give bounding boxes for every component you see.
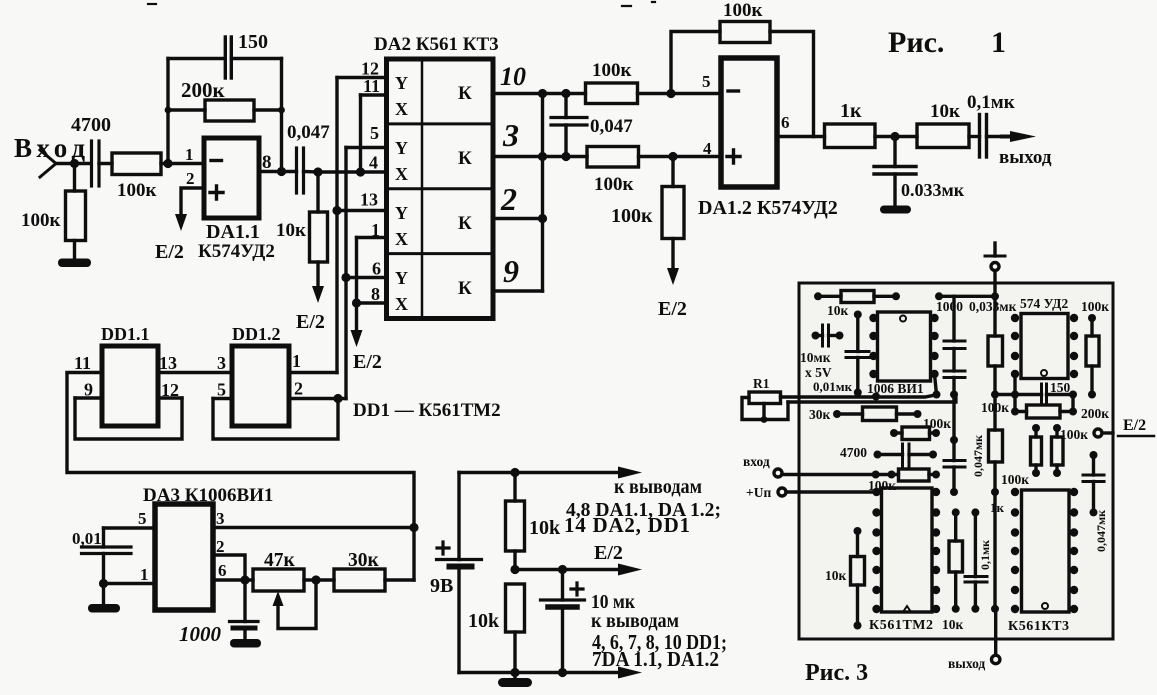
node feedback at pin5 <box>666 89 675 98</box>
PCB label К561ТМ2 <box>869 618 933 633</box>
PCB 1006 ВИ1 pins <box>869 314 938 378</box>
label 10k lower <box>468 610 500 632</box>
svg-text:X: X <box>395 164 408 184</box>
svg-text:R1: R1 <box>753 376 770 391</box>
pin 1 wire DD1.2 to bus A <box>289 371 337 374</box>
capacitor 10мк <box>541 570 585 673</box>
svg-text:Е/2: Е/2 <box>353 351 382 373</box>
svg-text:0,1мк: 0,1мк <box>978 540 992 570</box>
svg-text:8: 8 <box>371 284 380 304</box>
pin 5 wire <box>346 146 387 149</box>
minus sign DA1.2 <box>728 89 739 92</box>
svg-text:2: 2 <box>294 379 303 399</box>
label DA1.1 <box>206 221 260 243</box>
capacitor 1000 <box>230 580 259 640</box>
svg-text:10к: 10к <box>930 101 960 122</box>
pin 5 label DA1.2 <box>702 72 711 91</box>
pin 6 label DA1.2 <box>781 113 790 132</box>
resistor 100к (series input) <box>112 153 204 175</box>
pin 10 output wire <box>493 92 586 95</box>
label E/2 PCB <box>1123 417 1146 434</box>
node feedback tap <box>163 107 172 168</box>
resistor 10к to E/2 <box>310 172 328 286</box>
node wiper junction <box>311 575 320 584</box>
svg-text:1000: 1000 <box>936 299 963 314</box>
label 0,01 <box>72 529 102 548</box>
label 30к <box>348 550 380 571</box>
pin 1 wire <box>357 236 387 239</box>
svg-text:9: 9 <box>84 380 93 400</box>
pin 9 wire DD1.1 <box>75 396 102 399</box>
arrow E/2 pins 1,8 <box>351 330 363 347</box>
ground bottom rail <box>513 673 516 680</box>
PCB resistor 100к above 4700 <box>894 427 936 440</box>
svg-text:К574УД2: К574УД2 <box>198 241 275 262</box>
svg-text:14 DA2, DD1: 14 DA2, DD1 <box>564 513 690 537</box>
svg-text:4700: 4700 <box>840 445 867 460</box>
svg-text:DD1 — К561ТМ2: DD1 — К561ТМ2 <box>353 400 501 421</box>
analog switch DA2 К561КТ3 title <box>374 34 499 55</box>
label 100к to E/2 <box>611 205 653 227</box>
pin 2 label DA3 <box>216 537 225 556</box>
svg-text:100к: 100к <box>1060 427 1088 442</box>
PCB ground pin top <box>985 243 1005 296</box>
svg-text:10k: 10k <box>468 610 500 632</box>
svg-text:Е/2: Е/2 <box>296 311 325 333</box>
flip-flop DD1.1 <box>102 346 158 426</box>
plus sign DA1.1 <box>210 186 223 199</box>
PCB label 0,047мк right rotated <box>1094 510 1108 552</box>
rail E/2 <box>515 568 628 571</box>
label 150 <box>238 31 268 53</box>
svg-text:Е/2: Е/2 <box>1123 417 1146 434</box>
PCB label 1006 ВИ1 <box>867 381 924 396</box>
label R1 <box>753 376 770 391</box>
label E/2 rail <box>594 542 623 564</box>
node signal bus pin4 <box>356 167 365 176</box>
PCB capacitor 4700 <box>878 444 934 466</box>
DA2 section1 labels <box>395 73 472 119</box>
svg-text:К: К <box>458 213 472 234</box>
switch DA2 box <box>387 59 494 319</box>
svg-text:574 УД2: 574 УД2 <box>1020 296 1068 311</box>
output arrow выход <box>1000 131 1036 142</box>
plus sign DA1.2 <box>727 150 740 163</box>
svg-text:100к: 100к <box>611 205 653 227</box>
op-amp DA1.1 <box>204 138 259 218</box>
resistor 100к to E/2 (DA1.2 pin4) <box>662 157 684 269</box>
PCB К561ТМ2 pins <box>872 488 940 613</box>
ground 1000 <box>230 639 261 648</box>
pin 2 wire DD1.2 to bus B <box>289 397 346 400</box>
resistor R 100к (input to ground) <box>66 191 86 259</box>
PCB resistor 200к <box>1015 395 1073 419</box>
ground DA3 left <box>102 584 105 606</box>
pin 6 label DA3 <box>218 561 227 580</box>
svg-text:6: 6 <box>218 561 227 580</box>
pin 9 label <box>503 253 519 289</box>
pin 3 wire DA3 <box>213 526 414 529</box>
svg-text:11: 11 <box>74 353 91 373</box>
svg-text:0,1мк: 0,1мк <box>967 92 1015 113</box>
label 4, 6, 7, 8, 10 DD1; <box>592 630 727 654</box>
PCB IC 1006 ВИ1 <box>878 312 931 381</box>
label 0,1мк <box>967 92 1015 113</box>
svg-text:100к: 100к <box>923 416 951 431</box>
svg-text:11: 11 <box>363 76 380 96</box>
PCB IC К561КТ3 <box>1022 490 1070 612</box>
pin 1 wire DA3 <box>104 582 156 585</box>
svg-text:7DA 1.1, DA1.2: 7DA 1.1, DA1.2 <box>592 647 719 671</box>
nodes 0,047 taps <box>561 89 570 161</box>
pin 2 label DD1.2 <box>294 379 303 399</box>
label К574УД2 <box>198 241 275 262</box>
minus sign DA1.1 <box>211 159 222 162</box>
PCB capacitor 0,01 column <box>846 315 869 393</box>
svg-text:100к: 100к <box>594 174 634 195</box>
pin 3 label DD1.2 <box>217 353 226 373</box>
svg-text:К561КТ3: К561КТ3 <box>1008 619 1069 634</box>
svg-text:Е/2: Е/2 <box>658 298 687 320</box>
control bus B pins 5,6 to DD1.2 pin2 <box>344 148 347 399</box>
DA2 section4 labels <box>395 268 472 314</box>
PCB resistor 10к bottom middle <box>949 512 963 608</box>
speck top middle <box>622 2 655 6</box>
svg-text:0,033мк: 0,033мк <box>969 299 1017 314</box>
label 4700 <box>71 114 111 136</box>
pin 1 label DA3 <box>140 565 149 584</box>
label E/2 pins 1,8 <box>353 351 382 373</box>
svg-text:5: 5 <box>702 72 711 91</box>
svg-text:5: 5 <box>217 380 226 400</box>
pin 3 output wire <box>493 155 587 158</box>
svg-text:100к: 100к <box>1081 299 1109 314</box>
PCB capacitor 0,047мк right <box>1083 455 1104 512</box>
node input junction <box>70 159 79 168</box>
svg-text:1: 1 <box>292 351 301 371</box>
svg-text:13: 13 <box>360 190 378 210</box>
capacitor 0,047 between DA1.2 inputs <box>551 94 587 157</box>
node bus B pin6 <box>341 273 350 282</box>
resistor 10к output <box>917 124 980 148</box>
plus sign battery <box>437 542 449 554</box>
PCB stub 1006ВИ1 pin to trace <box>935 374 937 395</box>
node divider middle <box>510 565 519 574</box>
svg-text:X: X <box>395 99 408 119</box>
pin 2 output wire <box>493 217 543 220</box>
PCB label 0,047мк rotated <box>971 435 985 477</box>
potentiometer 47к <box>253 569 316 629</box>
pin 4 label <box>369 153 378 173</box>
pin 6 wire DA3 <box>213 578 253 581</box>
svg-text:10к: 10к <box>942 617 964 632</box>
svg-text:10k: 10k <box>529 517 561 539</box>
pin 6 wire <box>346 276 387 279</box>
pin 13 label <box>159 353 177 373</box>
svg-text:0.033мк: 0.033мк <box>901 180 965 200</box>
svg-text:Рис.: Рис. <box>888 26 944 59</box>
svg-text:0,047мк: 0,047мк <box>1094 510 1108 552</box>
svg-text:1к: 1к <box>840 100 862 122</box>
pin 12 wire DD1.1 <box>158 396 182 399</box>
svg-text:4700: 4700 <box>71 114 111 136</box>
label E/2 at 100к <box>658 298 687 320</box>
svg-text:6: 6 <box>372 259 381 279</box>
pin 8 label <box>262 152 272 173</box>
svg-text:1к: 1к <box>990 500 1005 515</box>
svg-text:47к: 47к <box>264 550 296 571</box>
PCB label 574 УД2 <box>1020 296 1068 311</box>
pin 11 wire <box>361 93 387 96</box>
PCB resistor 10к top left <box>818 291 896 303</box>
label 0,047 coupling <box>287 122 330 143</box>
pin 6 label <box>372 259 381 279</box>
node pin6 junction <box>240 575 249 584</box>
pin 12 wire <box>337 76 387 79</box>
capacitor 150 <box>168 37 282 78</box>
node DA3 pin3 junction <box>409 523 418 532</box>
PCB label 0,1мк rotated <box>978 540 992 570</box>
PCB resistor 10к bottom left <box>851 531 865 626</box>
svg-text:100к: 100к <box>117 180 157 201</box>
capacitor 0.033мк <box>874 137 916 207</box>
PCB IC К561ТМ2 <box>882 488 933 612</box>
PCB label 4700 <box>840 445 867 460</box>
label 100к vertical resistor <box>21 210 61 231</box>
plus sign 10мк <box>571 583 583 595</box>
svg-text:выход: выход <box>999 147 1052 168</box>
PCB capacitor 0,047мк mid column <box>944 395 965 493</box>
pin 8 label <box>371 284 380 304</box>
pin 3 label <box>502 117 519 153</box>
DA2 section2 labels <box>395 138 472 184</box>
svg-text:100к: 100к <box>981 400 1009 415</box>
svg-text:2: 2 <box>216 537 225 556</box>
PCB labels 1000 0,033мк <box>936 299 1017 314</box>
svg-text:150: 150 <box>238 31 268 53</box>
PCB board border <box>799 283 1113 639</box>
capacitor 0,1мк <box>980 115 1013 158</box>
node divider top <box>510 468 519 477</box>
PCB label 100к right top <box>1081 299 1109 314</box>
PCB label 150 <box>1050 380 1071 395</box>
svg-text:Е/2: Е/2 <box>155 241 184 263</box>
resistor 30к <box>334 569 414 591</box>
pin 4 wire (signal) <box>318 170 387 173</box>
PCB resistor 100к below 4700 (вход line) <box>782 469 936 481</box>
svg-text:3: 3 <box>217 353 226 373</box>
ground (input) <box>58 259 91 268</box>
svg-text:1: 1 <box>371 220 380 240</box>
pin 11 label DD1.1 <box>74 353 91 373</box>
svg-text:0,01мк: 0,01мк <box>813 379 853 394</box>
wiper arrow 47к <box>273 591 284 606</box>
svg-text:Y: Y <box>395 203 408 223</box>
resistor 100к to DA1.2 pin4 <box>587 147 721 168</box>
pin 8 wire <box>357 301 387 304</box>
svg-text:10к: 10к <box>827 303 849 318</box>
svg-text:Е/2: Е/2 <box>594 542 623 564</box>
label 47к <box>264 550 296 571</box>
node 0.033мк tap <box>890 132 899 141</box>
capacitor 4700 <box>92 141 113 186</box>
svg-text:К: К <box>458 148 472 169</box>
pin 1 label DD1.2 <box>292 351 301 371</box>
capacitor 0,047 coupling <box>297 148 319 193</box>
svg-text:DD1.1: DD1.1 <box>101 324 150 344</box>
node 10мк top <box>558 565 567 574</box>
arrow E/2 below 10к <box>312 286 324 303</box>
svg-text:вход: вход <box>743 454 770 469</box>
PCB label 100к above 4700 <box>923 416 951 431</box>
label E/2 pin2 <box>155 241 184 263</box>
svg-text:Y: Y <box>395 138 408 158</box>
svg-text:Y: Y <box>395 73 408 93</box>
PCB label 30к <box>809 407 831 422</box>
label Рис. 1 <box>888 26 1006 59</box>
pin 5 label DD1.2 <box>217 380 226 400</box>
svg-text:100к: 100к <box>723 0 763 21</box>
input connector Вход <box>40 150 91 177</box>
pin 9 output wire <box>493 289 543 292</box>
label DD1.1 <box>101 324 150 344</box>
svg-text:0,047: 0,047 <box>287 122 330 143</box>
resistor 1к <box>825 124 918 148</box>
feedback loop DD1.1 pins 9-12 <box>75 398 182 439</box>
label 10мк note к выводам <box>591 610 679 632</box>
PCB terminal выход <box>992 609 1000 664</box>
label 0,047 between <box>590 116 633 137</box>
label 200к <box>181 78 226 102</box>
feedback loop DD1.2 pins 5-2 <box>213 399 338 440</box>
svg-text:9: 9 <box>503 253 519 289</box>
PCB capacitor 0,1мк bottom middle <box>965 512 987 608</box>
pin 13 wire <box>337 209 387 212</box>
pin 13 wire DD1.1 to DD1.2 pin 3 <box>158 371 232 374</box>
bus pins 1,8 to E/2 <box>355 238 358 331</box>
svg-text:0,01: 0,01 <box>72 529 102 548</box>
pin 2 label <box>500 181 517 217</box>
svg-text:К561ТМ2: К561ТМ2 <box>869 618 933 633</box>
wire DA1.1 output <box>259 170 297 173</box>
pin 3 label DA3 <box>216 509 225 528</box>
label к выводам top <box>614 476 702 498</box>
svg-text:к выводам: к выводам <box>591 610 679 632</box>
svg-text:4: 4 <box>369 153 378 173</box>
svg-text:13: 13 <box>159 353 177 373</box>
svg-text:5: 5 <box>138 509 147 528</box>
label 9В <box>430 575 453 597</box>
label DA1.2 К574УД2 <box>698 197 838 219</box>
wire DD1.1 pin11 to DA3 pin3 <box>67 375 414 581</box>
svg-text:0,047: 0,047 <box>590 116 633 137</box>
svg-text:5: 5 <box>370 123 379 143</box>
node 100к E/2 tap <box>668 152 677 161</box>
pin 12 label <box>161 380 179 400</box>
nodes output bus <box>538 89 547 223</box>
svg-text:DA1.2 К574УД2: DA1.2 К574УД2 <box>698 197 838 219</box>
node pin8 <box>352 298 361 307</box>
svg-text:10к: 10к <box>276 220 306 241</box>
ground 0.033мк <box>880 206 911 214</box>
arrow E/2 at DA1.1 pin2 <box>175 214 187 231</box>
label DA3 К1006ВИ1 <box>143 485 273 506</box>
PCB capacitor 0,033мк column <box>988 296 1003 609</box>
supply rail top <box>459 471 628 474</box>
PCB capacitor 150 <box>1015 384 1073 404</box>
PCB wire ground to 1000 column <box>939 295 995 298</box>
arrow supply top <box>618 467 642 479</box>
svg-text:12: 12 <box>161 380 179 400</box>
PCB terminal вход <box>774 469 782 477</box>
wire 47к to 30к <box>304 578 334 581</box>
arrow E/2 at 100к <box>667 268 679 285</box>
PCB label 1к <box>990 500 1005 515</box>
DA2 section3 labels <box>395 203 472 249</box>
label 10 мк <box>591 591 635 613</box>
node feedback right <box>277 107 286 176</box>
svg-text:1000: 1000 <box>179 622 222 646</box>
svg-text:100к: 100к <box>1001 472 1029 487</box>
op-amp DA1.2 <box>721 58 777 187</box>
pin 11 wire DD1.1 <box>67 371 102 374</box>
svg-text:6: 6 <box>781 113 790 132</box>
label DD1.2 <box>232 324 281 344</box>
control bus A pins 12,13 to DD1.2 pin1 <box>335 78 338 373</box>
PCB label 100к E/2 and pad <box>1060 427 1088 442</box>
label feedback 100к <box>723 0 763 21</box>
svg-text:10: 10 <box>500 62 526 91</box>
PCB label 10к bottom left <box>825 568 847 583</box>
pin 2 wire DA3 <box>213 555 245 580</box>
node DD1.2 loop <box>333 394 342 403</box>
svg-text:10к: 10к <box>825 568 847 583</box>
svg-text:1: 1 <box>991 26 1006 59</box>
svg-text:30к: 30к <box>348 550 380 571</box>
resistor 200к <box>168 100 282 121</box>
PCB stub 574УД2 pin to 150 row <box>1013 374 1016 395</box>
battery 9В <box>437 473 482 673</box>
wire to R1 <box>73 164 76 192</box>
PCB long trace from R1 top <box>781 395 937 397</box>
PCB vertical 100к pair <box>1031 428 1064 473</box>
label Вход <box>14 133 85 163</box>
svg-text:+Uп: +Uп <box>746 485 771 500</box>
svg-text:X: X <box>395 229 408 249</box>
label DD1 К561ТМ2 <box>353 400 501 421</box>
svg-text:200к: 200к <box>1081 406 1109 421</box>
pin 2 label <box>186 169 195 188</box>
svg-text:Рис. 3: Рис. 3 <box>805 660 868 686</box>
svg-text:х 5V: х 5V <box>805 365 832 380</box>
svg-text:3: 3 <box>216 509 225 528</box>
svg-text:200к: 200к <box>181 78 226 102</box>
PCB label 200к <box>1081 406 1109 421</box>
label Рис. 3 <box>805 660 868 686</box>
svg-text:2: 2 <box>186 169 195 188</box>
pin 13 label <box>360 190 378 210</box>
svg-text:10мк: 10мк <box>800 350 831 365</box>
PCB trace R1 wiper to 1000 column <box>788 394 956 402</box>
pin 5 wire DA3 <box>104 526 156 529</box>
label 1к <box>840 100 862 122</box>
label E/2 below 10к <box>296 311 325 333</box>
label 14 DA2, DD1 <box>564 513 690 537</box>
PCB IC 574 УД2 <box>1021 314 1068 379</box>
PCB label 100к middle <box>981 400 1009 415</box>
PCB label К561КТ3 <box>1008 619 1069 634</box>
svg-text:3: 3 <box>502 117 519 153</box>
